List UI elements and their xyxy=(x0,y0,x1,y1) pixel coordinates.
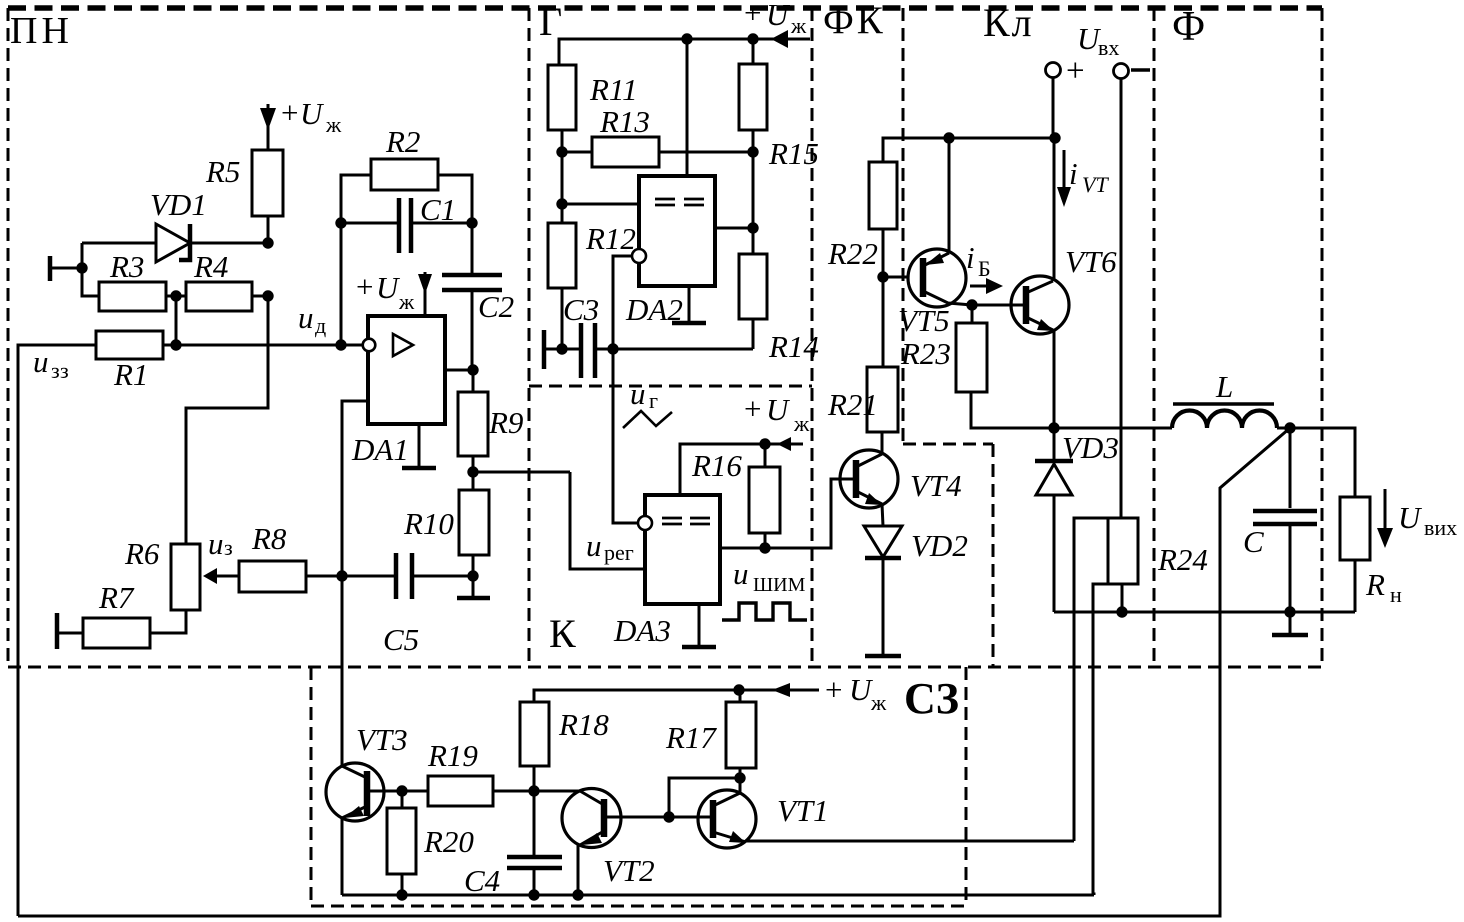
svg-text:u: u xyxy=(208,526,224,561)
svg-text:зз: зз xyxy=(51,358,69,383)
node R4/R5 column xyxy=(262,290,273,301)
resistor R5 xyxy=(252,150,283,216)
node R12/C3 xyxy=(556,343,567,354)
svg-text:Кл: Кл xyxy=(983,0,1034,45)
svg-text:R13: R13 xyxy=(599,104,650,139)
wire Rn bottom xyxy=(1354,560,1357,612)
svg-text:R15: R15 xyxy=(768,136,819,171)
diode VD3 xyxy=(1035,428,1119,612)
svg-text:L: L xyxy=(1215,369,1233,404)
resistor R17 xyxy=(726,702,756,768)
svg-text:К: К xyxy=(549,611,576,656)
resistor R4 xyxy=(186,282,252,311)
wire VT1 collector xyxy=(739,778,742,793)
capacitor C1 xyxy=(341,192,472,253)
svg-text:R18: R18 xyxy=(558,707,609,742)
svg-text:ФК: ФК xyxy=(823,0,886,42)
comparator DA3 xyxy=(613,495,720,648)
svg-text:VT: VT xyxy=(1082,172,1109,197)
resistor R21 xyxy=(867,367,898,432)
capacitor C5 xyxy=(383,553,473,657)
svg-text:ж: ж xyxy=(793,411,810,436)
resistor R7 xyxy=(83,618,150,648)
node R18/R19/VT2 collector/C4 xyxy=(528,785,539,796)
node VT3 base / R19 / R20 xyxy=(396,785,407,796)
node DA2 top pin xyxy=(681,33,692,44)
wire R21 bottom to VT4 xyxy=(881,432,884,453)
wire R23 leads xyxy=(971,305,1054,428)
svg-text:СЗ: СЗ xyxy=(904,674,959,723)
svg-text:VT5: VT5 xyxy=(898,303,950,338)
wire VT1 emitter long to R24 sense xyxy=(746,840,1074,843)
wire node to Rn xyxy=(1290,428,1355,497)
inductor L xyxy=(1172,369,1277,428)
svg-text:вх: вх xyxy=(1098,35,1119,60)
wire u_reg to K block xyxy=(473,471,570,474)
node R1/R3R4 xyxy=(170,339,181,350)
wire R17 bottom to base node xyxy=(669,778,740,817)
svg-text:д: д xyxy=(315,313,326,338)
F bottom rail xyxy=(1054,611,1355,614)
resistor R12 xyxy=(548,223,576,288)
wire DA1 output xyxy=(445,369,473,372)
node C3/R14 tap xyxy=(607,343,618,354)
node R22/R21/VT5 base xyxy=(877,271,888,282)
svg-text:+: + xyxy=(1066,53,1085,89)
resistor R16 xyxy=(749,467,780,533)
node R24 bottom lead / rail xyxy=(1116,606,1127,617)
comparator DA2 xyxy=(625,176,715,327)
label i_VT with arrow xyxy=(1057,150,1109,207)
resistor R15 xyxy=(739,64,767,130)
svg-text:ПН: ПН xyxy=(10,10,73,52)
svg-text:+: + xyxy=(744,391,761,426)
terminal - circle xyxy=(1114,64,1129,79)
wire R20 leads xyxy=(401,791,404,895)
svg-text:+: + xyxy=(281,95,298,130)
wire R10 bottom to ground xyxy=(472,555,475,597)
svg-text:R7: R7 xyxy=(98,580,135,615)
node R10/C5 xyxy=(467,570,478,581)
potentiometer R6 xyxy=(124,536,239,610)
node VT6 collector / +terminal xyxy=(1049,132,1060,143)
svg-text:C1: C1 xyxy=(420,192,456,227)
node DA1 input column xyxy=(335,339,346,350)
+Uzh arrow K xyxy=(744,391,810,451)
svg-text:з: з xyxy=(224,535,233,560)
svg-text:VT6: VT6 xyxy=(1065,244,1117,279)
node VT5 collector / VT6 base / R23 xyxy=(966,299,977,310)
svg-text:u: u xyxy=(586,528,602,563)
resistor R23 xyxy=(956,323,987,392)
wire R17 leads xyxy=(739,690,742,778)
+Uzh rail G xyxy=(559,39,810,65)
svg-text:ж: ж xyxy=(790,13,807,38)
svg-text:DA1: DA1 xyxy=(351,432,409,467)
svg-text:R19: R19 xyxy=(427,738,478,773)
transistor VT2 xyxy=(562,789,669,889)
resistor R14 xyxy=(739,254,767,319)
svg-text:R22: R22 xyxy=(827,236,878,271)
resistor R3 xyxy=(99,282,166,311)
wire output feedback diagonal xyxy=(18,428,1290,916)
DA3 inverting circle pin xyxy=(638,516,652,530)
wire R24 bottom lead xyxy=(1121,584,1124,612)
node R20/rail xyxy=(396,889,407,900)
resistor R9 xyxy=(458,392,488,456)
capacitor C4 xyxy=(464,791,562,898)
label U_vih with arrow xyxy=(1377,489,1457,548)
wire R13 leads xyxy=(562,151,753,154)
node C bottom / rail xyxy=(1284,606,1295,617)
svg-text:C5: C5 xyxy=(383,622,419,657)
wire R24 bottom sense loop xyxy=(1093,584,1108,894)
svg-text:U: U xyxy=(376,270,401,305)
label u_g with sawtooth xyxy=(623,376,672,428)
outer dashed border bottom xyxy=(8,666,1322,669)
wire switch node to L xyxy=(1054,427,1172,430)
wire R15 column xyxy=(752,39,755,254)
svg-text:ж: ж xyxy=(870,690,887,715)
divider FK jog horizontal xyxy=(903,443,993,446)
svg-text:R4: R4 xyxy=(193,249,228,284)
svg-text:R6: R6 xyxy=(124,536,160,571)
svg-text:+: + xyxy=(825,672,842,707)
wire R22 bottom xyxy=(882,229,885,367)
node DA2 right pin xyxy=(747,222,758,233)
svg-text:н: н xyxy=(1390,582,1402,607)
wire R4 right to node xyxy=(252,295,268,298)
wire VT2 collector xyxy=(534,790,580,793)
node L out / C / feedback xyxy=(1284,422,1295,433)
svg-text:R20: R20 xyxy=(423,824,474,859)
svg-text:R: R xyxy=(1365,567,1385,602)
node VT1/VT2 base xyxy=(663,811,674,822)
SZ box right xyxy=(965,667,968,906)
wire terminal to VD1 and down to R3 xyxy=(82,243,99,296)
ground DA3 xyxy=(682,604,716,647)
wire R9 leads xyxy=(472,370,475,490)
wire DA2 right pin xyxy=(715,227,753,230)
wire DA3 output to VT4 base xyxy=(720,479,856,548)
svg-text:u: u xyxy=(733,556,749,591)
svg-text:C2: C2 xyxy=(478,289,514,324)
svg-text:VD2: VD2 xyxy=(911,528,968,563)
svg-text:i: i xyxy=(1069,156,1078,191)
wire R2 left branch xyxy=(341,175,371,345)
label u_shim with square wave xyxy=(722,556,807,620)
resistor R10 xyxy=(459,490,489,555)
svg-text:R16: R16 xyxy=(691,448,742,483)
outer dashed border top xyxy=(8,5,1322,11)
resistor R18 xyxy=(520,702,549,766)
wire R14 bottom to C3 xyxy=(613,348,753,351)
wire R14 bottom xyxy=(752,319,755,349)
+Uzh arrow SZ xyxy=(772,672,887,715)
node R17 bottom / VT1 collector xyxy=(734,772,745,783)
node VD3 / switch xyxy=(1048,422,1059,433)
transistor VT3 xyxy=(326,722,408,821)
ground VD2 xyxy=(865,654,901,659)
svg-text:+: + xyxy=(744,0,761,30)
svg-text:VT2: VT2 xyxy=(603,853,655,888)
svg-text:u: u xyxy=(630,376,646,411)
wire VT6 collector xyxy=(1053,138,1056,281)
wire R2 right branch xyxy=(438,175,472,275)
svg-text:C3: C3 xyxy=(563,292,599,327)
wire R24 top sense loop xyxy=(1074,518,1108,841)
transistor VT4 xyxy=(831,450,962,508)
svg-text:R17: R17 xyxy=(665,720,717,755)
svg-text:U: U xyxy=(1398,500,1423,535)
svg-text:U: U xyxy=(766,0,791,32)
node C1 left xyxy=(335,217,346,228)
resistor R19 xyxy=(428,776,493,806)
svg-text:Ф: Ф xyxy=(1172,4,1205,50)
svg-text:u: u xyxy=(298,300,314,335)
svg-text:рег: рег xyxy=(604,540,634,565)
terminal stub R7 xyxy=(57,613,83,649)
wire R1 to DA1 input xyxy=(163,344,363,347)
svg-text:ж: ж xyxy=(325,112,342,137)
capacitor C xyxy=(1243,428,1317,612)
+Uzh rail DA3/R16 xyxy=(680,444,803,495)
resistor R11 xyxy=(548,65,576,130)
wire R16 leads xyxy=(764,444,767,548)
ground R10 xyxy=(457,596,490,601)
svg-text:R9: R9 xyxy=(488,405,523,440)
svg-text:R10: R10 xyxy=(403,506,454,541)
wire R12 bottom xyxy=(561,288,564,349)
svg-text:R23: R23 xyxy=(900,336,951,371)
wire R18 bottom xyxy=(533,766,536,791)
SZ box bottom xyxy=(311,905,966,908)
svg-text:VT1: VT1 xyxy=(777,793,829,828)
divider G | K xyxy=(529,385,812,388)
resistor R20 xyxy=(387,808,416,874)
wire VT6 emitter down to VD3 node xyxy=(1053,330,1056,428)
node R13/R15 xyxy=(747,146,758,157)
transistor VT1 xyxy=(669,790,829,848)
svg-text:R2: R2 xyxy=(385,124,420,159)
wire u_reg into DA3 xyxy=(570,472,645,569)
wire R3-R4 xyxy=(166,295,186,298)
svg-text:Г: Г xyxy=(539,0,562,44)
node R16 top xyxy=(759,438,770,449)
wire R6 bottom to R7 xyxy=(150,610,186,633)
divider FK jog vertical xyxy=(992,444,995,667)
DA2 output circle pin xyxy=(632,249,646,263)
wire - terminal down to R24 xyxy=(1120,79,1123,518)
+Uzh arrow G xyxy=(744,0,807,48)
resistor R13 xyxy=(592,137,659,167)
wire L to node xyxy=(1277,427,1290,430)
wire DA1 inverting input feedback xyxy=(342,401,368,766)
+Uzh supply arrow top of R5 xyxy=(260,95,342,150)
node C1 right xyxy=(466,217,477,228)
wire + terminal down xyxy=(1052,78,1055,138)
svg-text:VT4: VT4 xyxy=(910,468,962,503)
ground DA1 xyxy=(402,424,436,468)
svg-text:DA3: DA3 xyxy=(613,613,671,648)
node VT5 emitter column xyxy=(943,132,954,143)
svg-text:Б: Б xyxy=(978,256,991,281)
resistor R2 xyxy=(371,159,438,190)
svg-text:R11: R11 xyxy=(589,72,638,107)
node VT2 emitter/rail xyxy=(572,889,583,900)
wire VT5 emitter up to rail xyxy=(948,138,951,253)
wire VT4 emitter to VD2 xyxy=(882,504,883,526)
resistor R24 xyxy=(1108,518,1138,584)
resistor R1 xyxy=(96,331,163,359)
node R13 left xyxy=(556,146,567,157)
svg-text:VD3: VD3 xyxy=(1062,430,1119,465)
wire VT2 emitter xyxy=(577,845,580,895)
wire u_zz input to R1 xyxy=(18,345,96,916)
SZ +Uzh rail xyxy=(534,690,819,702)
wire SZ rail to R24 bottom sense xyxy=(1093,894,1094,895)
resistor R22 xyxy=(869,162,897,229)
svg-text:вих: вих xyxy=(1424,515,1457,540)
svg-text:VT3: VT3 xyxy=(356,722,408,757)
svg-text:R24: R24 xyxy=(1157,542,1208,577)
svg-text:г: г xyxy=(649,388,658,413)
outer dashed border right xyxy=(1321,8,1324,667)
svg-text:R12: R12 xyxy=(585,221,636,256)
svg-text:ШИМ: ШИМ xyxy=(753,574,806,596)
wire node R3R4 down to R1 wire xyxy=(175,296,178,345)
transistor VT5 xyxy=(898,249,972,338)
svg-text:U: U xyxy=(766,392,791,427)
op-amp DA1 xyxy=(351,316,445,467)
node DA1 out / C2 / R9 xyxy=(467,364,478,375)
SZ ground rail xyxy=(342,894,1094,897)
wire VT5 base xyxy=(883,276,923,279)
resistor R8 xyxy=(239,561,306,592)
svg-text:R5: R5 xyxy=(205,154,240,189)
svg-text:u: u xyxy=(33,344,49,379)
ground DA2 xyxy=(672,286,706,323)
node DA3 out / R16 bottom xyxy=(759,542,770,553)
node DA2 left pin xyxy=(556,198,567,209)
svg-text:VD1: VD1 xyxy=(150,187,207,222)
svg-text:U: U xyxy=(300,96,325,131)
capacitor C2 xyxy=(442,275,514,370)
terminal stub C3 xyxy=(544,330,581,369)
diode VD1 xyxy=(82,187,268,262)
svg-text:R3: R3 xyxy=(109,249,144,284)
divider FK | Kl upper xyxy=(902,8,905,444)
capacitor C3 xyxy=(563,292,613,378)
+Uzh supply arrow DA1 xyxy=(356,269,432,316)
svg-text:ж: ж xyxy=(398,289,415,314)
wire R8 right to node xyxy=(306,575,396,578)
transistor VT6 xyxy=(972,244,1117,334)
wire VT3 emitter down to rail xyxy=(341,818,344,895)
svg-text:C: C xyxy=(1243,524,1264,559)
node C4/rail xyxy=(528,889,539,900)
terminal stub left of R3 xyxy=(50,256,88,281)
wire DA2 left pin xyxy=(562,203,639,206)
wire R19 leads xyxy=(402,790,534,793)
terminal + circle xyxy=(1046,63,1061,78)
Kl top rail xyxy=(883,138,1055,162)
node R8/C5/VT3 column xyxy=(336,570,347,581)
divider Kl | F xyxy=(1153,8,1156,667)
diode VD2 xyxy=(864,526,968,655)
ground F xyxy=(1272,612,1308,635)
node R15 top xyxy=(747,33,758,44)
wire DA2 top pin xyxy=(686,39,689,176)
resistor Rn xyxy=(1340,497,1370,560)
SZ box left xyxy=(310,667,313,906)
svg-text:i: i xyxy=(966,240,975,275)
wire R11 bottom column xyxy=(561,130,564,223)
svg-text:+: + xyxy=(356,269,373,304)
node VD1/R5 xyxy=(262,237,273,248)
node R3/R4 xyxy=(170,290,181,301)
svg-text:R14: R14 xyxy=(768,329,819,364)
node R9/R10 u_reg xyxy=(467,466,478,477)
wire R5 bottom to VD1 node xyxy=(267,216,270,243)
outer dashed border left (PN box left) xyxy=(7,8,10,667)
svg-text:C4: C4 xyxy=(464,863,500,898)
svg-text:R21: R21 xyxy=(827,387,878,422)
wire node down jog left to R6 column xyxy=(186,296,268,544)
divider PN | G/K xyxy=(528,8,531,667)
node R17 top xyxy=(733,684,744,695)
label i_B with arrow xyxy=(966,240,1003,294)
divider K | FK xyxy=(811,8,814,667)
svg-text:R1: R1 xyxy=(113,357,148,392)
wire DA2 output down to DA3 xyxy=(613,256,638,523)
svg-text:R8: R8 xyxy=(251,521,287,556)
